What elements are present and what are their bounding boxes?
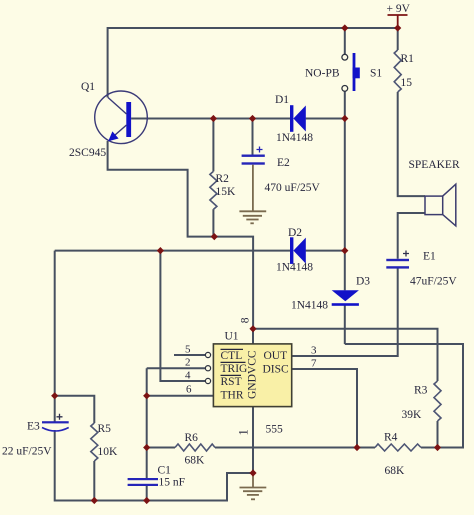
svg-text:R1: R1 xyxy=(401,53,415,65)
svg-text:15 nF: 15 nF xyxy=(159,477,186,489)
wire: D2 cathode-side to switch column xyxy=(306,250,345,252)
svg-text:NO-PB: NO-PB xyxy=(305,68,340,80)
junction: E2 top xyxy=(249,115,256,122)
svg-text:68K: 68K xyxy=(385,465,406,477)
junction: D2/D3 xyxy=(341,247,348,254)
wire: emitter run to R2 bottom junction xyxy=(108,141,215,237)
wire: E3 bottom to bottom rail to pin1 row xyxy=(55,430,253,501)
resistor R1 xyxy=(394,50,401,92)
capacitor E2 (electrolytic) xyxy=(242,147,265,165)
capacitor C1 xyxy=(128,478,158,486)
svg-text:OUT: OUT xyxy=(264,350,288,362)
junction: pin 1 / rail row xyxy=(249,469,256,476)
svg-text:R3: R3 xyxy=(414,385,428,397)
svg-text:5: 5 xyxy=(185,344,191,356)
wire: C1 bottom lead xyxy=(146,486,148,501)
svg-text:8: 8 xyxy=(239,317,251,323)
wire: D3 bottom row and right column xyxy=(345,344,463,448)
svg-text:22 uF/25V: 22 uF/25V xyxy=(2,446,52,458)
junction: DISC / R4 left xyxy=(353,444,360,451)
svg-text:D3: D3 xyxy=(356,276,370,288)
diode D1 xyxy=(290,105,306,132)
wire: E2 top stem xyxy=(252,119,254,155)
wire: R5 top row xyxy=(55,396,95,423)
svg-text:1N4148: 1N4148 xyxy=(276,132,313,144)
wire: R6 left lead xyxy=(147,447,175,449)
wire: THR row pin 6 xyxy=(147,395,214,397)
svg-text:D1: D1 xyxy=(275,94,289,106)
wire: RST column and row pin 4 xyxy=(160,251,205,381)
wire: E3 column upper xyxy=(54,251,56,422)
wire: R6 to R4 row xyxy=(215,447,375,449)
resistor R3 xyxy=(434,381,441,421)
svg-text:10K: 10K xyxy=(98,446,119,458)
junction: pin 8 xyxy=(249,325,256,332)
wire: R1 bottom to speaker top terminal xyxy=(398,92,425,196)
svg-text:R6: R6 xyxy=(185,432,199,444)
wire: base row left of D1 xyxy=(131,118,290,120)
svg-text:39K: 39K xyxy=(402,409,423,421)
junction: C1 at bottom rail xyxy=(143,497,150,504)
svg-text:S1: S1 xyxy=(370,68,382,80)
wire: R2 bottom lead xyxy=(212,209,214,236)
resistor R2 xyxy=(210,171,217,209)
wire: switch column D1 junction to D2 junction xyxy=(344,119,346,251)
junction: R3 / R4 right xyxy=(434,444,441,451)
junction: R2 bottom / emitter xyxy=(211,233,218,240)
speaker xyxy=(425,184,456,226)
wire: TRIG/THR column down to C1 xyxy=(146,368,148,478)
junction: R2 top xyxy=(210,115,217,122)
wire: R3 bottom lead xyxy=(437,421,439,448)
wire: DISC pin 7 row and drop xyxy=(292,369,357,448)
op-amp U1: 555 timer IC body xyxy=(213,344,291,407)
junction: C1 / R6 xyxy=(143,444,150,451)
junction: THR / TRIG column xyxy=(143,392,150,399)
svg-text:4: 4 xyxy=(185,370,191,382)
svg-text:D2: D2 xyxy=(288,227,302,239)
wire: D2 row left of diode xyxy=(55,250,290,252)
wire: D3 top stem xyxy=(344,251,346,291)
transistor Q1 xyxy=(95,91,148,144)
svg-text:C1: C1 xyxy=(158,465,172,477)
svg-text:R5: R5 xyxy=(98,423,112,435)
wire: switch top lead xyxy=(344,28,346,54)
svg-text:GNDVCC: GNDVCC xyxy=(247,350,259,399)
junction: +9V corner xyxy=(394,24,401,31)
svg-text:RST: RST xyxy=(221,376,242,388)
svg-text:1N4148: 1N4148 xyxy=(291,300,328,312)
wire: pin 8 row to R3 top lead xyxy=(253,329,438,381)
svg-text:THR: THR xyxy=(221,390,244,402)
diode D2 xyxy=(290,237,306,264)
resistor R5 xyxy=(91,423,98,461)
svg-text:Q1: Q1 xyxy=(81,81,95,93)
svg-text:3: 3 xyxy=(311,345,317,357)
svg-text:1: 1 xyxy=(237,429,251,435)
wire: D3 bar to row xyxy=(344,305,346,344)
junction: S1 top at rail xyxy=(341,24,348,31)
wire: collector vertical + top rail xyxy=(108,28,398,98)
ground (pin 1, below 555) xyxy=(240,473,267,499)
wire: R4 right lead xyxy=(421,447,438,449)
wire: speaker bottom terminal to E1 top xyxy=(398,213,425,259)
resistor R6 (horizontal) xyxy=(175,444,215,451)
switch S1 (push button NO-PB) xyxy=(342,53,360,91)
junction: D1/S1 bottom xyxy=(341,115,348,122)
svg-text:CTL: CTL xyxy=(221,350,243,362)
wire: D1 cathode-side to switch column xyxy=(306,118,345,120)
capacitor E1 (electrolytic) xyxy=(386,251,409,269)
wire: TRIG row pin 2 xyxy=(147,367,206,369)
wire: CTL stub pin 5 xyxy=(174,354,205,356)
svg-text:R2: R2 xyxy=(216,173,230,185)
junction: E3 column / R5 row xyxy=(51,392,58,399)
svg-text:TRIG: TRIG xyxy=(221,363,248,375)
power +9V xyxy=(387,3,411,28)
svg-text:68K: 68K xyxy=(185,455,206,467)
wire: pin 1 column xyxy=(252,407,254,473)
pin 4 bubble xyxy=(205,378,210,383)
resistor R4 (horizontal) xyxy=(375,444,421,451)
svg-text:7: 7 xyxy=(311,358,317,370)
svg-text:E1: E1 xyxy=(423,251,436,263)
svg-text:2: 2 xyxy=(185,357,191,369)
diode D3 (pointing down) xyxy=(332,290,359,306)
junction: R5 at bottom rail xyxy=(91,497,98,504)
svg-text:R4: R4 xyxy=(384,432,398,444)
ground (below E2) xyxy=(239,165,266,224)
svg-text:SPEAKER: SPEAKER xyxy=(409,159,460,171)
svg-text:470 uF/25V: 470 uF/25V xyxy=(265,182,321,194)
svg-text:DISC: DISC xyxy=(263,363,290,375)
svg-text:E2: E2 xyxy=(277,157,290,169)
wire: E1 bottom to OUT pin 3 xyxy=(292,269,398,357)
svg-text:+ 9V: + 9V xyxy=(387,3,411,15)
pin 5 bubble xyxy=(205,352,210,357)
svg-text:1N4148: 1N4148 xyxy=(276,262,313,274)
svg-text:555: 555 xyxy=(266,424,284,436)
pin 2 bubble xyxy=(205,366,210,371)
svg-text:U1: U1 xyxy=(225,331,239,343)
capacitor E3 (electrolytic, curved plate) xyxy=(42,414,69,431)
junction: RST tap on D2 row xyxy=(157,247,164,254)
svg-text:15K: 15K xyxy=(216,186,237,198)
wire: pin 8 stub xyxy=(252,329,254,344)
svg-text:E3: E3 xyxy=(27,421,40,433)
svg-text:15: 15 xyxy=(401,77,413,89)
wire: switch bottom lead xyxy=(344,91,346,118)
wire: R5 bottom lead xyxy=(93,461,95,501)
svg-text:47uF/25V: 47uF/25V xyxy=(410,276,457,288)
svg-text:2SC945: 2SC945 xyxy=(69,147,106,159)
svg-text:6: 6 xyxy=(186,384,192,396)
wire: R2 top lead xyxy=(212,119,214,172)
wire: R2 bottom junction to 555 pin 8 xyxy=(214,237,253,329)
